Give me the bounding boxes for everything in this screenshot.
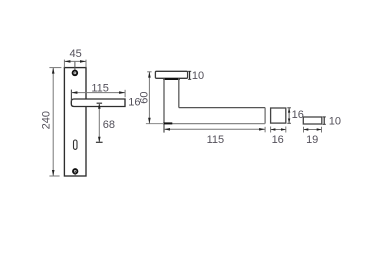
dim 19 arrows [304,128,309,130]
side view neck left edge [163,78,165,132]
dim 115 arrows [71,91,77,94]
bottom screw [73,169,77,173]
dim 60 bottom extension [146,123,164,125]
dim 45 line [64,60,86,62]
side view latch plate [303,117,322,124]
dim 16 square height ticks [287,107,291,109]
dim 68 line [98,103,100,142]
svg-text:240: 240 [41,111,53,129]
dim 68 bottom tick [96,141,103,143]
dim 115 line [71,92,125,94]
dim 68 arrows [98,103,101,109]
lever handle front view [71,99,125,107]
svg-text:10: 10 [192,70,204,82]
dim 115 side line [164,128,265,130]
svg-text:68: 68 [103,119,115,131]
svg-text:45: 45 [69,48,81,60]
dim 10 rose I-beam [189,71,191,79]
side view spindle boss bold bottom [163,122,172,124]
dim 240 extension lines [49,67,61,69]
svg-text:115: 115 [91,82,109,94]
dim 16 square height line [288,108,290,124]
svg-text:10: 10 [329,116,341,128]
bottom screw centerline [74,174,76,177]
dim 16 square width arrows [271,128,276,130]
side view rose plate [155,71,187,78]
dim 60 line [148,72,150,124]
dim 45 arrows [64,60,70,63]
backplate front view [64,68,86,176]
svg-text:115: 115 [207,134,225,146]
dim 115 extension lines [70,90,72,101]
dim 68 top tick [97,102,103,104]
side view grip right end [264,108,266,124]
side view neck right edge [178,78,180,107]
svg-text:19: 19 [306,134,318,146]
svg-text:16: 16 [292,109,304,121]
top screw centerline [74,61,76,70]
dim 19 line [304,129,322,131]
dim 10 latch I-beam [323,117,325,124]
dim 19 ticks [303,127,305,133]
side view grip bottom edge [164,123,265,125]
top screw [73,71,78,76]
keyhole [74,140,78,149]
dim 45 extension lines [63,60,65,68]
svg-text:60: 60 [138,91,150,103]
dim 16 square height arrows [288,108,290,113]
dim 240 arrows [52,68,55,74]
side view grip top edge [179,107,265,109]
dim 16 square width line [271,129,286,131]
dim 60 top tick [147,71,151,73]
side view spindle square [271,108,286,123]
dim 115 side right extension [264,127,266,133]
dim 240 line [52,68,54,176]
dim 16 square width ticks [270,127,272,133]
svg-text:16: 16 [272,134,284,146]
side view spindle boss bold top [163,78,180,80]
dim 115 side arrows [164,128,170,131]
dim 60 arrows [148,72,151,78]
